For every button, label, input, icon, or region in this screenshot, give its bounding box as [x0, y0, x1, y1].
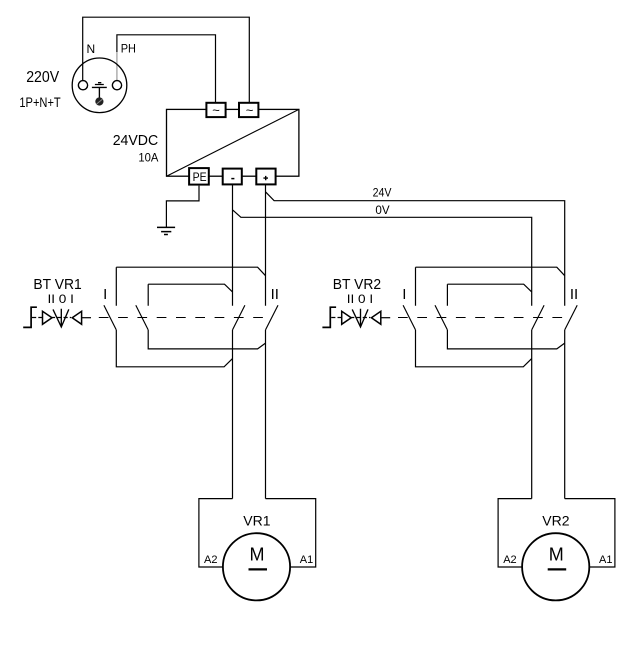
svg-text:24VDC: 24VDC: [113, 132, 159, 149]
svg-text:VR2: VR2: [542, 513, 569, 529]
svg-text:220V: 220V: [26, 69, 59, 86]
svg-text:PE: PE: [193, 170, 207, 184]
svg-text:~: ~: [246, 102, 254, 117]
svg-text:BT VR2: BT VR2: [333, 276, 381, 293]
svg-text:BT VR1: BT VR1: [33, 276, 81, 293]
svg-text:0V: 0V: [375, 203, 389, 217]
svg-text:10A: 10A: [138, 151, 158, 165]
svg-text:~: ~: [212, 102, 220, 117]
svg-text:1P+N+T: 1P+N+T: [19, 94, 61, 110]
svg-text:PH: PH: [121, 42, 136, 56]
svg-text:N: N: [87, 42, 96, 56]
svg-text:24V: 24V: [373, 185, 392, 199]
svg-text:VR1: VR1: [243, 513, 270, 529]
